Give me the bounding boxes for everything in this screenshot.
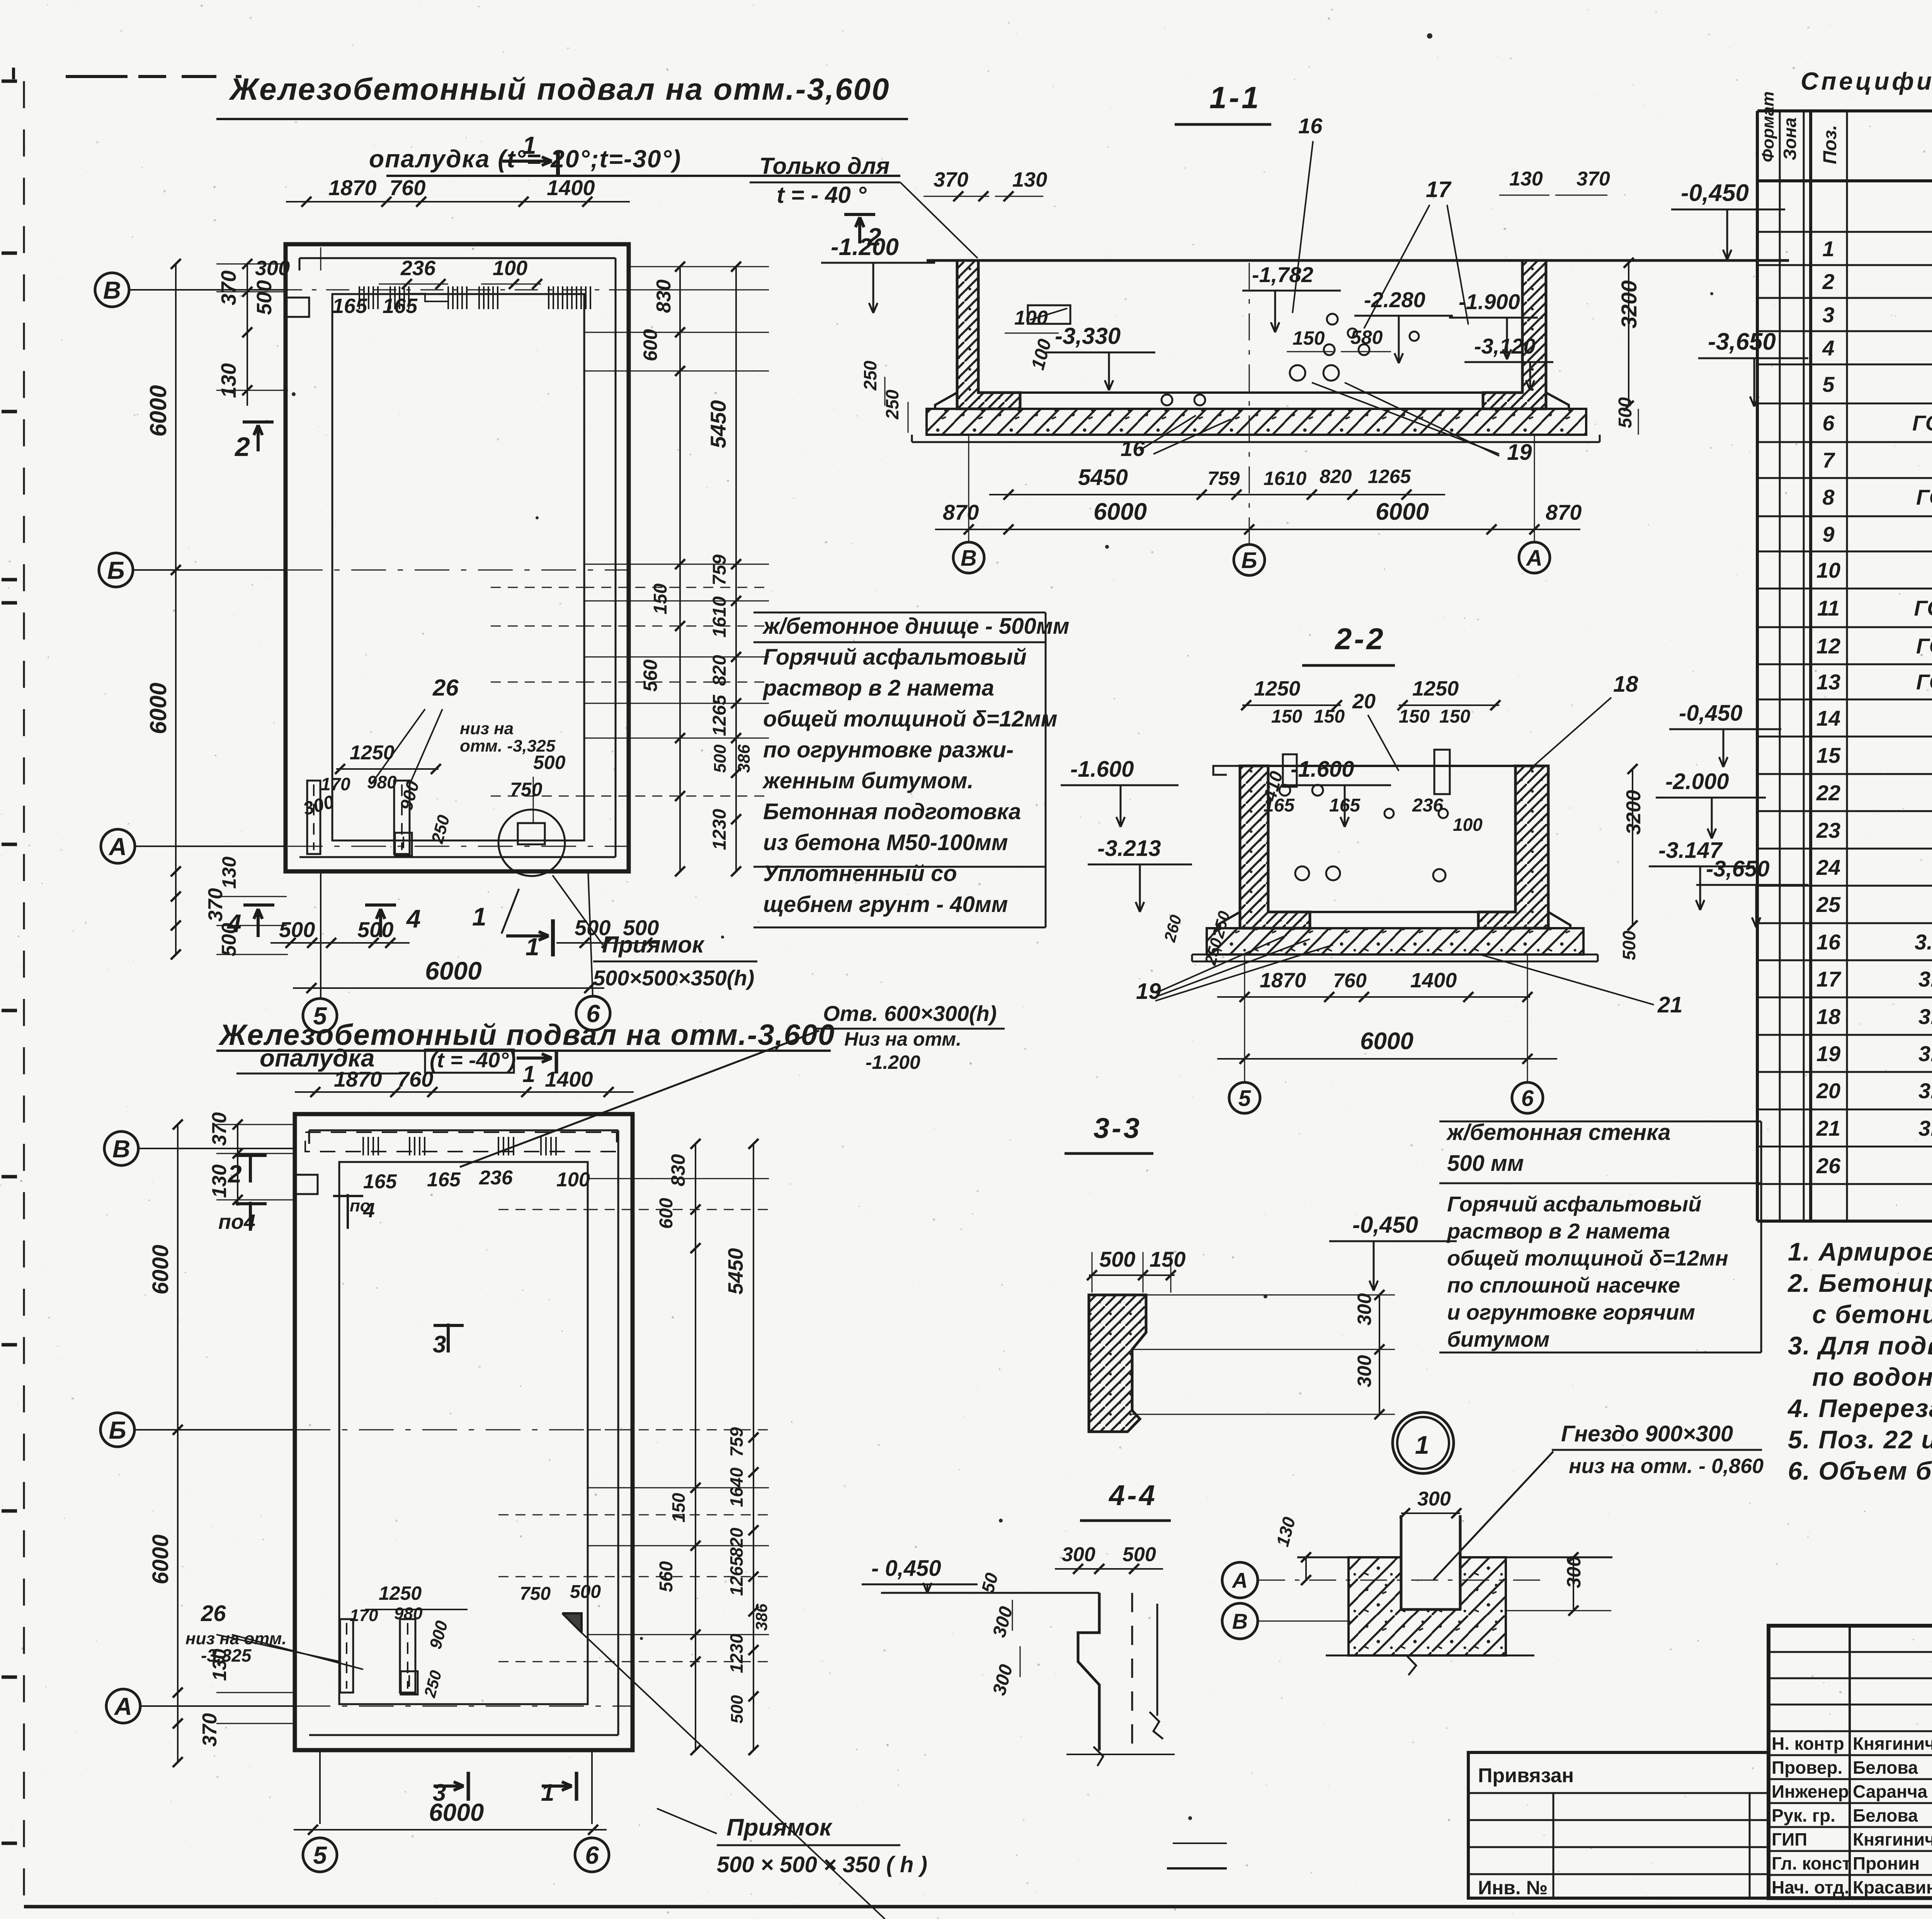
svg-text:980: 980 <box>394 1604 423 1623</box>
svg-text:3: 3 <box>433 1779 446 1806</box>
svg-text:битумом: битумом <box>1447 1327 1549 1351</box>
svg-text:1: 1 <box>541 1779 554 1806</box>
svg-text:820: 820 <box>709 655 730 686</box>
svg-text:760: 760 <box>389 175 425 200</box>
svg-text:-2.280: -2.280 <box>1364 288 1425 312</box>
svg-text:26: 26 <box>432 675 459 701</box>
svg-text:759: 759 <box>726 1427 747 1457</box>
svg-text:870: 870 <box>943 500 979 524</box>
svg-text:Провер.: Провер. <box>1772 1757 1842 1778</box>
svg-text:Отв. 600×300(h): Отв. 600×300(h) <box>823 1001 997 1026</box>
svg-text:5. Поз. 22 и 23 учесть толь: 5. Поз. 22 и 23 учесть только для t = - … <box>1788 1425 1932 1454</box>
svg-text:21: 21 <box>1816 1116 1840 1140</box>
svg-text:150: 150 <box>650 584 671 614</box>
svg-text:раствор в 2 намета: раствор в 2 намета <box>1446 1219 1670 1243</box>
svg-text:500 мм: 500 мм <box>1447 1151 1524 1176</box>
svg-text:Белова: Белова <box>1853 1805 1918 1825</box>
svg-text:1870: 1870 <box>1260 969 1306 992</box>
svg-text:16: 16 <box>1298 114 1323 138</box>
svg-text:Рук. гр.: Рук. гр. <box>1772 1805 1835 1825</box>
svg-text:- 0,450: - 0,450 <box>871 1556 941 1581</box>
svg-text:500: 500 <box>279 917 315 942</box>
svg-text:с бетонированием фундаментов: с бетонированием фундаментов под оборудо… <box>1812 1300 1932 1329</box>
svg-text:3: 3 <box>1822 303 1834 327</box>
svg-text:В: В <box>103 276 121 304</box>
svg-text:9: 9 <box>1822 522 1834 546</box>
svg-text:5450: 5450 <box>724 1248 747 1295</box>
svg-text:Инв. №: Инв. № <box>1478 1877 1548 1899</box>
svg-text:17: 17 <box>1816 967 1842 991</box>
svg-text:Б: Б <box>107 556 124 584</box>
svg-text:560: 560 <box>639 659 661 692</box>
svg-text:760: 760 <box>397 1067 433 1091</box>
svg-text:150: 150 <box>1271 706 1302 727</box>
svg-text:236: 236 <box>479 1167 513 1189</box>
svg-text:А: А <box>108 833 127 861</box>
svg-text:6: 6 <box>585 1841 599 1869</box>
svg-text:4: 4 <box>1822 336 1834 360</box>
svg-text:1610: 1610 <box>1264 468 1306 489</box>
svg-text:500: 500 <box>570 1582 601 1602</box>
svg-text:500×500×350(h): 500×500×350(h) <box>593 966 754 990</box>
svg-text:3.901-5: 3.901-5 <box>1918 1041 1932 1066</box>
svg-text:5: 5 <box>313 1841 327 1869</box>
svg-text:6: 6 <box>1521 1086 1534 1111</box>
svg-text:6000: 6000 <box>145 385 171 437</box>
svg-text:-0,450: -0,450 <box>1681 180 1749 206</box>
svg-text:общей толщиной δ=12мм: общей толщиной δ=12мм <box>763 706 1058 732</box>
svg-text:Красавин: Красавин <box>1853 1877 1932 1897</box>
svg-text:600: 600 <box>656 1198 677 1229</box>
svg-text:1265: 1265 <box>726 1556 747 1596</box>
svg-text:500: 500 <box>533 752 566 773</box>
svg-text:370: 370 <box>217 270 240 305</box>
svg-text:165: 165 <box>427 1169 461 1191</box>
svg-text:236: 236 <box>400 257 436 280</box>
svg-text:21: 21 <box>1657 992 1683 1017</box>
svg-text:370: 370 <box>934 168 968 191</box>
svg-text:165: 165 <box>1264 795 1295 816</box>
svg-text:150: 150 <box>1399 706 1430 727</box>
svg-text:-1,782: -1,782 <box>1252 262 1313 287</box>
svg-text:3. Для подвала принят бетон: 3. Для подвала принят бетон М 200 МРЗ 50… <box>1788 1331 1932 1360</box>
svg-text:759: 759 <box>709 555 730 585</box>
svg-text:щебнем грунт - 40мм: щебнем грунт - 40мм <box>763 892 1008 917</box>
svg-text:общей толщиной δ=12мн: общей толщиной δ=12мн <box>1447 1246 1728 1270</box>
svg-text:165: 165 <box>332 294 367 318</box>
svg-text:В: В <box>1232 1609 1248 1633</box>
svg-text:18: 18 <box>1613 672 1638 697</box>
svg-text:2: 2 <box>1822 269 1834 294</box>
svg-text:Н. контр: Н. контр <box>1772 1734 1844 1754</box>
svg-text:170: 170 <box>350 1606 378 1625</box>
svg-text:150: 150 <box>1150 1247 1185 1271</box>
svg-text:500: 500 <box>1619 931 1639 960</box>
svg-text:26: 26 <box>1816 1153 1841 1178</box>
svg-text:1. Армирование подвала см.: 1. Армирование подвала см. лист 6. <box>1788 1237 1932 1266</box>
svg-text:560: 560 <box>656 1561 677 1592</box>
svg-text:по огрунтовке разжи-: по огрунтовке разжи- <box>763 737 1014 762</box>
svg-text:8: 8 <box>1822 485 1835 509</box>
svg-text:12: 12 <box>1816 634 1840 658</box>
svg-text:Нач. отд.: Нач. отд. <box>1772 1877 1849 1897</box>
svg-text:2: 2 <box>234 432 250 462</box>
svg-text:26: 26 <box>201 1601 226 1626</box>
svg-text:2-2: 2-2 <box>1334 622 1386 656</box>
svg-text:3200: 3200 <box>1622 790 1645 835</box>
svg-text:130: 130 <box>208 1164 231 1198</box>
svg-text:370: 370 <box>1577 168 1610 190</box>
svg-text:ж/бетонная стенка: ж/бетонная стенка <box>1446 1120 1671 1145</box>
svg-text:3.901-5: 3.901-5 <box>1918 967 1932 991</box>
svg-text:1250: 1250 <box>379 1582 422 1604</box>
svg-text:А: А <box>114 1693 132 1720</box>
svg-text:-3,650: -3,650 <box>1708 328 1776 355</box>
svg-text:ГОСТ 23279 - 78: ГОСТ 23279 - 78 <box>1914 596 1932 620</box>
svg-text:Только для: Только для <box>759 153 889 179</box>
svg-text:по сплошной насечке: по сплошной насечке <box>1447 1273 1680 1297</box>
svg-text:300: 300 <box>1062 1543 1095 1566</box>
svg-text:3.901-5: 3.901-5 <box>1918 1116 1932 1140</box>
svg-text:500: 500 <box>1122 1543 1156 1566</box>
svg-text:А: А <box>1231 1568 1248 1592</box>
svg-text:760: 760 <box>1333 970 1367 992</box>
svg-text:-2.000: -2.000 <box>1665 769 1729 794</box>
svg-text:100: 100 <box>1453 815 1483 835</box>
svg-text:580: 580 <box>1350 327 1383 348</box>
svg-text:Княгиничев: Княгиничев <box>1853 1734 1932 1754</box>
svg-text:370: 370 <box>208 1112 231 1146</box>
svg-text:500: 500 <box>728 1695 747 1723</box>
svg-text:300: 300 <box>1354 1293 1375 1325</box>
svg-text:165: 165 <box>383 294 418 318</box>
svg-text:15: 15 <box>1816 743 1841 767</box>
svg-text:3.901-5: 3.901-5 <box>1918 1079 1932 1103</box>
svg-text:6000: 6000 <box>148 1245 173 1295</box>
svg-text:-0,450: -0,450 <box>1352 1212 1418 1238</box>
svg-text:Железобетонный подвал на от: Железобетонный подвал на отм.-3,600 <box>228 72 890 106</box>
svg-text:3.901-5: 3.901-5 <box>1918 1004 1932 1029</box>
svg-text:170: 170 <box>321 774 350 794</box>
svg-text:830: 830 <box>667 1154 689 1186</box>
svg-text:2. Бетонирование днища выпол: 2. Бетонирование днища выполнять одновре… <box>1787 1269 1932 1297</box>
svg-text:1610: 1610 <box>709 596 730 638</box>
svg-text:18: 18 <box>1816 1004 1841 1029</box>
svg-text:-3.213: -3.213 <box>1097 836 1161 861</box>
svg-text:500: 500 <box>1615 397 1636 428</box>
svg-text:Пронин: Пронин <box>1853 1853 1920 1873</box>
svg-text:150: 150 <box>1439 706 1470 727</box>
svg-text:и огрунтовке горячим: и огрунтовке горячим <box>1447 1300 1695 1324</box>
svg-text:5: 5 <box>1822 372 1835 396</box>
svg-text:Б: Б <box>1241 548 1257 573</box>
svg-text:1: 1 <box>526 933 539 961</box>
svg-text:6000: 6000 <box>1094 498 1147 525</box>
svg-text:t = - 40 °: t = - 40 ° <box>777 182 867 208</box>
svg-text:Гнездо 900×300: Гнездо 900×300 <box>1561 1421 1733 1446</box>
svg-text:3-3: 3-3 <box>1094 1112 1142 1144</box>
svg-text:1250: 1250 <box>350 742 395 764</box>
svg-text:150: 150 <box>1314 706 1345 727</box>
svg-text:-3,325: -3,325 <box>201 1645 252 1666</box>
svg-text:300: 300 <box>1354 1355 1375 1387</box>
svg-text:370: 370 <box>204 888 227 922</box>
svg-text:А: А <box>1526 546 1543 571</box>
svg-text:2: 2 <box>867 223 881 251</box>
svg-text:100: 100 <box>1014 307 1048 329</box>
svg-text:Низ на отм.: Низ на отм. <box>844 1028 961 1050</box>
svg-text:-0,450: -0,450 <box>1679 701 1742 726</box>
svg-text:1: 1 <box>1822 236 1834 261</box>
svg-text:130: 130 <box>1509 168 1543 190</box>
svg-text:Княгиничев: Княгиничев <box>1853 1829 1932 1849</box>
svg-text:Саранча: Саранча <box>1853 1781 1928 1802</box>
svg-text:980: 980 <box>367 772 397 792</box>
svg-text:16: 16 <box>1816 930 1841 954</box>
svg-text:10: 10 <box>1816 558 1840 582</box>
svg-text:100: 100 <box>556 1169 590 1191</box>
svg-text:870: 870 <box>1546 500 1582 524</box>
svg-text:1265: 1265 <box>1368 466 1411 487</box>
svg-text:5450: 5450 <box>706 400 730 448</box>
svg-text:Спецификация к железобетон: Спецификация к железобетонному подвалу <box>1801 67 1932 95</box>
svg-text:-1.600: -1.600 <box>1291 757 1354 782</box>
svg-text:Инженер: Инженер <box>1772 1781 1849 1802</box>
svg-text:500: 500 <box>1099 1247 1135 1271</box>
svg-text:Уплотненный со: Уплотненный со <box>763 861 957 886</box>
svg-text:ГИП: ГИП <box>1772 1829 1807 1849</box>
svg-text:1640: 1640 <box>726 1467 747 1507</box>
svg-text:820: 820 <box>1320 466 1352 487</box>
svg-text:3.901-5: 3.901-5 <box>1915 930 1932 954</box>
svg-text:150: 150 <box>668 1493 689 1523</box>
svg-text:1: 1 <box>472 902 486 931</box>
svg-text:Гл. конст: Гл. конст <box>1772 1853 1851 1873</box>
svg-text:Формат: Формат <box>1759 91 1777 162</box>
svg-text:20: 20 <box>1352 690 1376 713</box>
svg-text:1870: 1870 <box>334 1067 382 1091</box>
svg-text:759: 759 <box>1207 468 1240 489</box>
svg-text:750: 750 <box>520 1584 551 1604</box>
svg-text:130: 130 <box>218 856 240 889</box>
svg-text:-1.900: -1.900 <box>1459 289 1520 314</box>
svg-text:-3,120: -3,120 <box>1474 334 1536 358</box>
svg-text:ГОСТ 23279-78: ГОСТ 23279-78 <box>1916 670 1932 694</box>
svg-text:130: 130 <box>217 363 240 398</box>
svg-text:19: 19 <box>1507 440 1532 465</box>
svg-text:500: 500 <box>253 280 276 315</box>
svg-text:ГОСТ 23279-78: ГОСТ 23279-78 <box>1912 411 1932 435</box>
svg-text:-1.200: -1.200 <box>831 234 899 260</box>
svg-text:165: 165 <box>1329 795 1361 816</box>
svg-text:-1.600: -1.600 <box>1070 757 1134 782</box>
svg-text:500 × 500 × 350 ( h ): 500 × 500 × 350 ( h ) <box>717 1852 927 1877</box>
svg-text:250: 250 <box>860 361 880 391</box>
svg-text:Б: Б <box>109 1416 126 1444</box>
svg-text:23: 23 <box>1816 818 1840 842</box>
svg-text:25: 25 <box>1816 892 1841 917</box>
svg-text:1-1: 1-1 <box>1209 80 1261 115</box>
svg-text:4: 4 <box>363 1199 375 1222</box>
svg-text:300: 300 <box>1417 1488 1451 1510</box>
svg-text:14: 14 <box>1816 706 1840 730</box>
svg-text:24: 24 <box>1816 855 1840 880</box>
svg-text:-1.200: -1.200 <box>866 1051 920 1073</box>
svg-text:19: 19 <box>1816 1041 1840 1066</box>
svg-text:4: 4 <box>406 904 421 933</box>
svg-text:раствор в 2 намета: раствор в 2 намета <box>762 675 994 701</box>
svg-text:11: 11 <box>1817 596 1840 620</box>
svg-text:4. Перерезанную арматуру при: 4. Перерезанную арматуру приварить к кор… <box>1787 1394 1932 1422</box>
svg-text:Привязан: Привязан <box>1478 1764 1574 1787</box>
svg-text:500: 500 <box>711 744 730 773</box>
svg-text:Бетонная подготовка: Бетонная подготовка <box>763 799 1021 824</box>
svg-text:Приямок: Приямок <box>726 1814 833 1841</box>
svg-text:1250: 1250 <box>1412 677 1459 700</box>
svg-text:Приямок: Приямок <box>602 932 705 958</box>
svg-text:1265: 1265 <box>709 694 730 736</box>
svg-text:6000: 6000 <box>1376 498 1429 525</box>
svg-text:4-4: 4-4 <box>1108 1479 1157 1511</box>
svg-text:5450: 5450 <box>1078 465 1128 490</box>
svg-text:750: 750 <box>510 779 543 800</box>
svg-text:(t = -40°): (t = -40°) <box>430 1048 516 1072</box>
svg-text:6. Объем бетона для t = - 4: 6. Объем бетона для t = - 40° С — 113 , … <box>1788 1456 1932 1485</box>
svg-text:из бетона М50-100мм: из бетона М50-100мм <box>763 830 1008 855</box>
svg-text:6000: 6000 <box>145 683 171 734</box>
svg-text:-3,650: -3,650 <box>1706 856 1769 881</box>
svg-text:3: 3 <box>433 1331 446 1358</box>
svg-text:ж/бетонное днище - 500мм: ж/бетонное днище - 500мм <box>762 614 1070 639</box>
svg-text:370: 370 <box>199 1713 221 1747</box>
svg-text:386: 386 <box>752 1603 770 1631</box>
svg-text:6000: 6000 <box>1360 1028 1413 1055</box>
svg-text:по водонепроницаемости - не: по водонепроницаемости - не нормируется. <box>1812 1363 1932 1391</box>
svg-text:17: 17 <box>1426 177 1452 202</box>
svg-text:В: В <box>961 546 977 571</box>
svg-text:1230: 1230 <box>709 809 730 850</box>
svg-text:6000: 6000 <box>425 956 482 985</box>
svg-text:300: 300 <box>255 257 290 280</box>
svg-text:600: 600 <box>639 329 661 361</box>
svg-text:1250: 1250 <box>1254 677 1300 700</box>
svg-text:22: 22 <box>1816 781 1840 805</box>
svg-text:150: 150 <box>1293 327 1325 349</box>
svg-text:1870: 1870 <box>328 175 377 200</box>
svg-text:Горячий асфальтовый: Горячий асфальтовый <box>1447 1192 1701 1216</box>
svg-text:1400: 1400 <box>545 1067 593 1091</box>
svg-text:4: 4 <box>226 909 241 937</box>
svg-text:низ на: низ на <box>460 719 514 738</box>
svg-text:165: 165 <box>363 1170 397 1193</box>
svg-text:5: 5 <box>1238 1086 1251 1111</box>
svg-text:1: 1 <box>1415 1431 1429 1459</box>
svg-text:20: 20 <box>1816 1079 1840 1103</box>
svg-text:Горячий асфальтовый: Горячий асфальтовый <box>763 645 1027 670</box>
svg-text:1400: 1400 <box>1410 969 1457 992</box>
svg-text:7: 7 <box>1822 448 1835 472</box>
svg-text:1230: 1230 <box>726 1633 747 1673</box>
svg-text:низ на отм. - 0,860: низ на отм. - 0,860 <box>1569 1455 1764 1478</box>
svg-text:236: 236 <box>1412 795 1443 816</box>
svg-text:130: 130 <box>1012 168 1047 191</box>
svg-text:6000: 6000 <box>148 1535 173 1584</box>
svg-text:Белова: Белова <box>1853 1757 1918 1778</box>
svg-text:ГОСТ 23279-78: ГОСТ 23279-78 <box>1916 634 1932 658</box>
svg-text:13: 13 <box>1816 670 1840 694</box>
svg-text:500: 500 <box>357 917 393 942</box>
svg-text:В: В <box>112 1135 130 1163</box>
svg-text:100: 100 <box>493 257 527 280</box>
svg-text:ГОСТ 23279-78: ГОСТ 23279-78 <box>1916 485 1932 509</box>
svg-text:386: 386 <box>735 744 753 773</box>
svg-text:-3,330: -3,330 <box>1055 323 1121 349</box>
svg-text:женным битумом.: женным битумом. <box>762 768 974 793</box>
svg-text:820: 820 <box>726 1528 747 1557</box>
svg-text:2: 2 <box>228 1160 242 1188</box>
svg-text:Поз.: Поз. <box>1820 125 1840 164</box>
svg-text:6: 6 <box>1822 411 1835 435</box>
svg-text:830: 830 <box>653 279 675 313</box>
svg-text:Зона: Зона <box>1780 117 1800 160</box>
svg-text:1400: 1400 <box>547 175 595 200</box>
svg-text:1: 1 <box>522 1061 535 1087</box>
svg-text:1: 1 <box>522 131 536 159</box>
